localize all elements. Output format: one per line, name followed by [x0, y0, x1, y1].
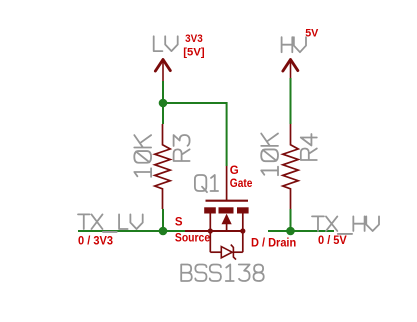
svg-text:S: S: [175, 217, 183, 229]
svg-text:0 / 5V: 0 / 5V: [318, 235, 347, 247]
svg-text:G: G: [230, 165, 239, 177]
svg-text:5V: 5V: [305, 28, 319, 40]
svg-text:Gate: Gate: [230, 178, 253, 190]
svg-text:3V3: 3V3: [185, 33, 203, 45]
svg-text:D / Drain: D / Drain: [251, 235, 296, 249]
svg-text:Source: Source: [175, 231, 210, 245]
svg-text:[5V]: [5V]: [183, 47, 205, 59]
svg-text:0 / 3V3: 0 / 3V3: [78, 235, 113, 247]
